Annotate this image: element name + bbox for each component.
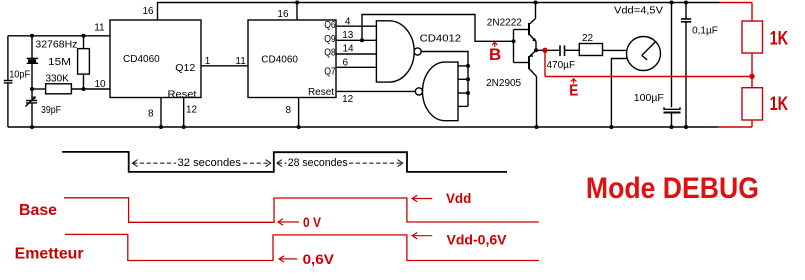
wire meter second terminal — [611, 59, 627, 128]
svg-text:Mode DEBUG: Mode DEBUG — [586, 172, 759, 205]
svg-text:10pF: 10pF — [9, 70, 30, 81]
svg-text:4: 4 — [345, 16, 351, 27]
svg-text:11: 11 — [94, 23, 105, 34]
nand gate G2 mirrored — [423, 62, 458, 121]
svg-text:Emetteur: Emetteur — [15, 245, 84, 262]
svg-text:Vdd: Vdd — [446, 191, 471, 206]
dashed span arrow 32 secondes left — [133, 160, 403, 167]
transistor Q2 2N2905 PNP — [529, 50, 537, 127]
junction dots black — [30, 1, 688, 130]
wire U2 pin 8 — [298, 98, 300, 128]
wire top-left horizontal node to pin 11 — [8, 35, 110, 37]
wire G2 input stubs — [458, 66, 468, 107]
wire oscillator bottom row to pin 10 — [32, 88, 110, 90]
svg-text:16: 16 — [277, 9, 289, 20]
svg-text:13: 13 — [342, 30, 354, 41]
trimmer capacitor 39pF — [26, 89, 38, 127]
svg-text:E: E — [569, 83, 578, 100]
svg-text:CD4060: CD4060 — [261, 55, 298, 66]
wire Q9 tap up and over to transistor bases — [362, 15, 514, 42]
node emitter red dot — [543, 48, 547, 52]
wire U2 Q6 pin 4 to gate — [336, 25, 376, 27]
wire between 1K resistors — [751, 53, 753, 88]
wire left branch vertical lower — [7, 83, 9, 127]
dashed span arrow 28 secondes left — [278, 162, 287, 164]
IC U2 CD4060 — [248, 20, 336, 98]
svg-text:10: 10 — [95, 79, 107, 90]
resistor 15M — [78, 36, 90, 89]
svg-text:100µF: 100µF — [634, 93, 664, 104]
capacitor 10pF — [4, 81, 13, 83]
svg-text:0 V: 0 V — [303, 215, 321, 230]
svg-text:1K: 1K — [770, 93, 789, 115]
svg-text:1K: 1K — [770, 28, 789, 50]
resistor R2 1K — [742, 88, 763, 120]
svg-text:8: 8 — [148, 109, 154, 120]
svg-text:32 secondes: 32 secondes — [178, 157, 242, 169]
svg-text:Reset: Reset — [308, 87, 334, 98]
svg-text:Vdd-0,6V: Vdd-0,6V — [447, 232, 508, 248]
svg-text:22: 22 — [582, 33, 594, 44]
wire U2 Q8 pin 14 to gate — [336, 53, 376, 55]
svg-text:2N2905: 2N2905 — [486, 78, 521, 89]
svg-text:Vdd=4,5V: Vdd=4,5V — [614, 6, 663, 17]
wire red emitter node down — [544, 50, 546, 76]
meter M1 — [627, 37, 661, 71]
red annotation arrow Vdd — [412, 195, 432, 201]
wire red emitter horizontal E — [545, 76, 752, 78]
wire PNP base — [514, 62, 530, 64]
wire G1 output to G2 inputs — [421, 52, 468, 107]
wire U2 Q7 pin 6 to gate — [336, 66, 376, 68]
wire U2 pin 12 Reset from gate G2 output — [336, 90, 415, 92]
svg-text:12: 12 — [186, 104, 198, 115]
wire red 1K column top — [751, 3, 753, 22]
svg-text:8: 8 — [286, 105, 292, 116]
wire U1 pin 12 — [183, 98, 185, 128]
svg-text:CD4060: CD4060 — [123, 54, 160, 65]
svg-text:Q12: Q12 — [175, 63, 195, 74]
wire 100uF branch from top rail — [671, 3, 673, 108]
svg-text:2N2222: 2N2222 — [487, 17, 522, 28]
nand gate G1 CD4012 — [376, 21, 414, 82]
svg-text:470µF: 470µF — [547, 60, 576, 71]
wire red bottom rail segment — [718, 126, 752, 128]
svg-text:Base: Base — [19, 202, 57, 219]
svg-text:32768Hz: 32768Hz — [35, 40, 77, 51]
svg-text:39pF: 39pF — [41, 105, 61, 116]
wire left branch vertical — [7, 36, 9, 81]
wire NPN base — [514, 29, 530, 31]
svg-text:0,1µF: 0,1µF — [692, 26, 718, 37]
svg-text:330K: 330K — [46, 74, 70, 85]
svg-text:Q8: Q8 — [324, 48, 336, 59]
svg-text:16: 16 — [143, 6, 155, 17]
red Emetteur waveform — [65, 234, 539, 260]
node E marker arrow — [573, 79, 575, 84]
wire emitter node to 470uF — [536, 49, 560, 51]
node B marker arrow — [494, 43, 496, 48]
red annotation arrow 0,6V — [279, 256, 297, 262]
svg-text:B: B — [489, 45, 501, 64]
svg-text:6: 6 — [343, 57, 349, 68]
dashed span arrow 28 secondes right — [349, 162, 402, 164]
svg-text:Reset: Reset — [168, 89, 197, 100]
svg-text:Q9: Q9 — [324, 34, 336, 45]
red annotation arrow 0V — [278, 219, 299, 225]
wire bottom ground rail — [8, 126, 718, 128]
wire red 1K column bottom — [751, 120, 753, 127]
wire red top rail segment — [720, 2, 753, 4]
svg-text:28 secondes: 28 secondes — [288, 157, 348, 169]
resistor 330K — [46, 84, 72, 94]
svg-text:CD4012: CD4012 — [420, 33, 462, 44]
svg-text:1: 1 — [205, 56, 211, 67]
svg-text:15M: 15M — [48, 57, 71, 68]
svg-text:11: 11 — [235, 56, 246, 67]
svg-text:0,6V: 0,6V — [303, 251, 335, 267]
svg-text:14: 14 — [343, 44, 355, 55]
svg-text:Q7: Q7 — [324, 67, 336, 78]
wire U2 pin 16 — [296, 3, 298, 21]
wire U1 pin 8 — [160, 98, 162, 128]
red wiring — [492, 3, 763, 128]
IC U1 CD4060 — [110, 20, 201, 98]
capacitor 470uF — [560, 45, 579, 56]
red annotation arrow Vdd-0,6V — [412, 233, 432, 239]
dashed span arrow 32 secondes right — [243, 162, 270, 164]
gate G1 output bubble — [414, 48, 421, 55]
red Base waveform — [64, 198, 539, 223]
wire U2 Q9 pin 13 to gate — [336, 39, 376, 41]
transistor Q1 2N2222 NPN — [529, 3, 537, 51]
transistor base tie vertical — [513, 30, 515, 63]
svg-text:Q6: Q6 — [324, 20, 336, 31]
black reference waveform — [62, 152, 507, 172]
capacitor 0,1uF branch — [681, 3, 691, 128]
wire top supply rail Vdd — [158, 3, 720, 21]
resistor 22 — [579, 44, 627, 56]
capacitor 100uF polarized — [664, 107, 681, 127]
wire Q12 output pin1 to U2 pin 11 — [201, 65, 248, 67]
gate G2 output bubble — [415, 88, 422, 95]
crystal X1 32768Hz — [27, 36, 38, 89]
node E junction dot — [750, 74, 754, 78]
resistor R1 1K — [742, 21, 763, 53]
svg-text:12: 12 — [342, 94, 354, 105]
